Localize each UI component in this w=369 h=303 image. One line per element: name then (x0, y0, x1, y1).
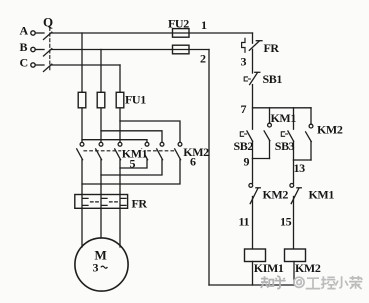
bottom wire (209, 284, 294, 286)
KM2 main contact 3 (178, 142, 182, 146)
wire node 15 (293, 197, 295, 250)
SB1 NC button (250, 73, 258, 85)
branch wire at node 7 (253, 107, 312, 109)
svg-text:3: 3 (93, 260, 99, 274)
wire below SB2 (252, 141, 254, 158)
wire main phase 1 (81, 33, 83, 142)
svg-text:FU1: FU1 (125, 93, 146, 107)
KM1 main contact 3 (118, 142, 122, 146)
fuse FU2 lower (173, 45, 190, 54)
wire below KM1 pole2 (100, 160, 102, 195)
svg-text:FR: FR (264, 41, 280, 55)
fuse FU1 pole3 (116, 92, 124, 108)
wire feed to KM2 pole2 (101, 131, 162, 142)
svg-text:FU2: FU2 (168, 16, 189, 30)
wire KM2 pole2 to phase2 (101, 160, 162, 175)
svg-text:6: 6 (190, 155, 196, 169)
svg-text:B: B (20, 40, 28, 54)
KM1 main contact 2 (99, 142, 103, 146)
wire stub A (35, 32, 44, 34)
wire FR to motor 1 (81, 208, 83, 247)
svg-text:SB1: SB1 (263, 72, 283, 86)
svg-text:3: 3 (241, 55, 247, 69)
svg-text:1: 1 (201, 18, 207, 32)
svg-text:KM2: KM2 (263, 187, 289, 201)
terminal A (31, 31, 35, 35)
wire FR to motor 3 (119, 208, 121, 247)
wire node 3 (252, 49, 254, 73)
wire 2 vertical (208, 50, 210, 286)
svg-text:SB2: SB2 (234, 139, 254, 153)
wire stub B (35, 49, 44, 51)
KM2 main contact 2 (160, 142, 164, 146)
fuse FU1 pole1 (78, 92, 86, 108)
svg-text:KM1: KM1 (271, 111, 297, 125)
watermark kong (321, 276, 336, 288)
wire row B (52, 49, 210, 51)
svg-text:15: 15 (280, 214, 292, 228)
KM1 main contact 1 (80, 142, 84, 146)
FR NC contact (242, 38, 245, 52)
thermal relay FR heater box (75, 195, 128, 209)
wire main phase 3 (119, 65, 121, 142)
wire node 7 (252, 85, 254, 130)
wire main phase 2 (100, 50, 102, 143)
svg-text:2: 2 (200, 52, 206, 66)
switch Q blade B (44, 49, 52, 56)
wire feed to KM2 pole3 (120, 121, 180, 142)
KM2 main contact 1 (145, 142, 149, 146)
node 13 join (294, 159, 312, 161)
SB2 NO button (247, 131, 253, 141)
wire KM2 pole1 to phase3 (120, 160, 147, 168)
switch Q blade C (44, 64, 52, 71)
coil KM1 (245, 249, 266, 262)
KM2 interlock NC contact (249, 184, 253, 188)
switch Q blade A (44, 32, 52, 39)
wire FR to motor 2 (100, 208, 102, 238)
label KM1 main (121, 149, 145, 158)
KM2 aux contact (310, 108, 312, 124)
terminal C (31, 63, 35, 67)
svg-text:Q: Q (43, 15, 53, 30)
KM1 interlock NC contact (290, 184, 294, 188)
wire stub C (35, 64, 44, 66)
KM1 aux contact (269, 108, 271, 123)
terminal B (31, 47, 35, 51)
fuse FU2 upper (173, 29, 190, 38)
svg-text:FR: FR (132, 197, 148, 211)
svg-text:KM1: KM1 (309, 187, 335, 201)
svg-text:C: C (20, 55, 28, 69)
watermark zhihu (261, 276, 286, 289)
watermark gong (306, 278, 321, 288)
svg-text:13: 13 (294, 161, 306, 175)
svg-text:SB3: SB3 (275, 139, 295, 153)
wire KM2 pole3 to phase1 (82, 160, 180, 184)
svg-text:KM2: KM2 (295, 261, 321, 275)
svg-text:5: 5 (130, 156, 136, 170)
wire node 9 down (252, 159, 254, 184)
svg-text:KM2: KM2 (183, 145, 209, 159)
svg-text:11: 11 (239, 214, 250, 228)
switch Q linkage (49, 28, 51, 72)
svg-text:KIM1: KIM1 (254, 261, 284, 275)
SB3 NO button (293, 108, 295, 129)
label KM2 main (183, 147, 207, 156)
watermark xiao (335, 276, 348, 287)
watermark at sign (294, 277, 304, 287)
wire node 13 down (293, 160, 295, 183)
fuse FU1 pole2 (97, 92, 105, 108)
svg-text:9: 9 (244, 154, 250, 168)
wire feed to KM2 pole1 (82, 140, 147, 142)
wire coil KM1 bottom (252, 262, 254, 286)
svg-text:A: A (20, 23, 29, 37)
wire 1 control drop (252, 33, 254, 43)
node 9 join (253, 158, 270, 160)
wire row C (52, 64, 121, 66)
wire below KM1 pole3 (119, 160, 121, 195)
coil KM2 (285, 249, 306, 262)
wire node 11 (252, 197, 254, 250)
wire below KM1 pole1 (81, 160, 83, 195)
linkage dashes KM1 KM2 (84, 150, 175, 152)
watermark rong (349, 276, 362, 289)
wire row A (52, 32, 253, 34)
wire coil KM2 bottom (293, 262, 295, 286)
svg-text:KM2: KM2 (317, 122, 343, 136)
motor M (75, 238, 128, 291)
svg-text:7: 7 (241, 102, 247, 116)
